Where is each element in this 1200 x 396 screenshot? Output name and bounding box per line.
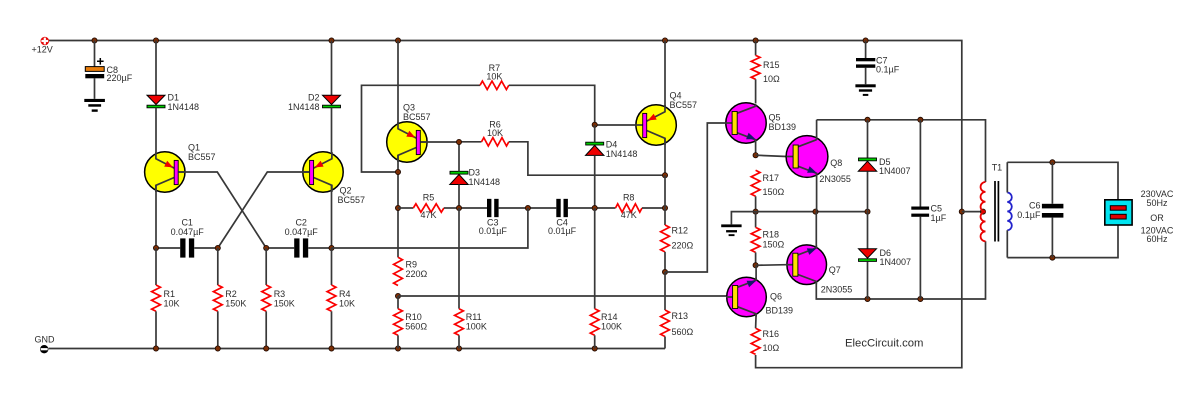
wire Q6 collector to R16: [755, 314, 758, 328]
diode D5: [858, 157, 910, 176]
junction R12/R13/Q5 base feed: [662, 269, 667, 274]
svg-text:BC557: BC557: [338, 195, 366, 205]
svg-text:Q6: Q6: [770, 292, 782, 302]
wire Q4 base to D4/R7 node: [595, 124, 636, 126]
wire R7 right to D4/Q4 base node: [509, 85, 595, 125]
wire Q2 base to C1/R2 node (cross-couple): [218, 172, 310, 248]
resistor R13: [661, 272, 694, 349]
wire Q7 emitter to ground row: [815, 212, 817, 249]
svg-text:BD139: BD139: [766, 306, 794, 316]
svg-text:BC557: BC557: [670, 100, 698, 110]
wire D2 to Q2 emitter: [331, 108, 333, 152]
node output voltage label: [1141, 189, 1174, 244]
wire Q4 collector down: [664, 138, 666, 175]
svg-text:R4: R4: [339, 289, 351, 299]
svg-text:150K: 150K: [274, 299, 295, 309]
svg-text:R10: R10: [405, 312, 422, 322]
svg-text:Q8: Q8: [830, 158, 842, 168]
svg-text:560Ω: 560Ω: [405, 322, 427, 332]
svg-text:1N4148: 1N4148: [469, 177, 501, 187]
ground (driver bias): [721, 212, 755, 236]
svg-text:1N4148: 1N4148: [288, 102, 320, 112]
transistor Q6: [726, 277, 793, 317]
wire C3-C4 node down to Q2 collector: [332, 208, 528, 248]
wire +12V rail (top, right drop to R16): [49, 41, 962, 368]
svg-text:ElecCircuit.com: ElecCircuit.com: [845, 338, 923, 350]
transformer T1: [981, 162, 1012, 257]
svg-text:2N3055: 2N3055: [821, 285, 853, 295]
diode D3: [450, 168, 500, 188]
svg-text:1µF: 1µF: [931, 213, 947, 223]
wire Q8 collector up to +rail of primary: [816, 120, 818, 137]
resistor R5: [398, 193, 459, 221]
resistor R12: [661, 175, 694, 272]
svg-text:R14: R14: [601, 312, 618, 322]
junction rail/Q3: [395, 38, 400, 43]
svg-text:10K: 10K: [339, 299, 355, 309]
transistor Q8: [786, 136, 851, 184]
wire Q5 base to R12/R13 node: [665, 123, 726, 272]
wire Q1 base to C2/R3 node (cross-couple): [178, 172, 266, 248]
resistor R8: [595, 193, 665, 221]
junction Q2 collector/C2/R4: [329, 245, 334, 250]
junction GND rail/R14: [592, 346, 597, 351]
resistor R17: [751, 170, 784, 211]
svg-text:0.1µF: 0.1µF: [876, 65, 900, 75]
wire rail to D1: [155, 41, 157, 96]
svg-text:OR: OR: [1150, 213, 1164, 223]
svg-text:BC557: BC557: [403, 112, 431, 122]
resistor R15: [751, 41, 780, 104]
wire rail to D2: [331, 41, 333, 96]
svg-text:10Ω: 10Ω: [763, 74, 780, 84]
diode D4: [586, 140, 638, 160]
junction Q3 collector/R7 feed: [395, 169, 400, 174]
svg-text:Q4: Q4: [670, 91, 682, 101]
junction Q5 emitter/R17/Q8 base: [753, 153, 758, 158]
junction +12V feed/centre tap: [959, 209, 964, 214]
svg-text:1N4148: 1N4148: [606, 149, 638, 159]
wire node to Q7 base: [756, 264, 787, 267]
junction R7/D4/Q4 base: [592, 122, 597, 127]
svg-text:150K: 150K: [225, 299, 246, 309]
junction Q4 collector/R6 feed/R12: [662, 173, 667, 178]
svg-text:0.1µF: 0.1µF: [1017, 210, 1041, 220]
junction rail/R15: [753, 38, 758, 43]
svg-text:R3: R3: [274, 289, 286, 299]
svg-text:T1: T1: [992, 163, 1003, 173]
junction C6 bottom: [1050, 255, 1055, 260]
junction R5/Q3 collector column: [395, 205, 400, 210]
junction Q7/Q8 emitters: [813, 209, 818, 214]
svg-text:R18: R18: [763, 230, 780, 240]
junction GND rail/R2: [215, 346, 220, 351]
svg-text:D4: D4: [606, 140, 618, 150]
junction R9/R10/Q6 base line: [395, 293, 400, 298]
svg-text:D3: D3: [469, 168, 481, 178]
svg-text:60Hz: 60Hz: [1146, 234, 1168, 244]
wire R9/R10 node to Q6 base: [398, 295, 727, 297]
wire Q2 collector to C2/R4 node: [331, 185, 333, 248]
capacitor C3: [459, 199, 528, 236]
wire rail to Q4 emitter: [664, 41, 666, 112]
svg-text:10K: 10K: [486, 72, 502, 82]
svg-text:R1: R1: [164, 289, 176, 299]
transistor Q1: [145, 143, 216, 193]
svg-text:C5: C5: [931, 204, 943, 214]
resistor R11: [455, 208, 487, 349]
junction Q1 collector/C1/R1: [153, 245, 158, 250]
junction GND rail/R10: [395, 346, 400, 351]
resistor R10: [394, 296, 428, 349]
AC output socket: [1105, 200, 1132, 225]
junction GND rail/R4: [329, 346, 334, 351]
wire rail to Q3 emitter: [397, 41, 399, 129]
svg-text:220Ω: 220Ω: [406, 269, 428, 279]
wire D6 cathode to bottom row: [867, 262, 869, 300]
junction C5 bottom row: [918, 296, 923, 301]
wire Q8 emitter to ground row: [816, 173, 818, 211]
node GND terminal: [35, 335, 56, 354]
wire secondary bottom to socket: [1007, 225, 1118, 257]
transistor Q5: [726, 103, 797, 143]
svg-text:0.047µF: 0.047µF: [285, 227, 319, 237]
svg-text:100K: 100K: [601, 322, 622, 332]
capacitor C2: [266, 218, 331, 258]
svg-text:Q2: Q2: [340, 186, 352, 196]
svg-text:Q7: Q7: [829, 265, 841, 275]
wire centre tap: [962, 211, 983, 213]
svg-text:R13: R13: [672, 311, 689, 321]
transistor Q4: [636, 91, 697, 146]
wire Q7 collector row to primary bottom: [816, 241, 985, 299]
junction D6 bottom row: [865, 296, 870, 301]
wire secondary top to socket: [1007, 162, 1118, 200]
capacitor C8: [85, 41, 132, 99]
wire D3 anode to R5/C3 node: [458, 185, 460, 209]
svg-text:220µF: 220µF: [107, 73, 133, 83]
junction rail/D2: [329, 38, 334, 43]
svg-text:1N4007: 1N4007: [879, 166, 911, 176]
resistor R4: [327, 248, 355, 349]
wire Q8 collector row to primary top: [817, 120, 986, 182]
svg-text:R12: R12: [672, 226, 689, 236]
resistor R16: [751, 328, 779, 354]
wire D5 anode to ground row: [867, 171, 869, 211]
svg-text:150Ω: 150Ω: [763, 187, 785, 197]
svg-text:R8: R8: [623, 193, 635, 203]
junction R18/Q6 emitter/Q7 base: [753, 263, 758, 268]
svg-text:R17: R17: [763, 173, 780, 183]
junction rail/Q4: [662, 38, 667, 43]
svg-text:R5: R5: [423, 193, 435, 203]
wire GND rail: [49, 348, 666, 350]
svg-text:47K: 47K: [621, 210, 637, 220]
wire Q1 collector to C1/R1 node: [155, 185, 157, 248]
wire node to D4 cathode: [594, 125, 596, 142]
wire R6/Q3 base node to D3 cathode: [458, 142, 460, 171]
svg-text:+12V: +12V: [32, 45, 53, 55]
svg-text:0.01µF: 0.01µF: [479, 226, 508, 236]
transistor Q2: [303, 152, 366, 205]
resistor R7: [480, 63, 509, 90]
svg-text:560Ω: 560Ω: [672, 327, 694, 337]
wire Q3 base to R6/D3 node: [420, 141, 459, 143]
wire top row to D5 cathode: [867, 120, 869, 158]
junction C2/R3/Q1 base: [264, 245, 269, 250]
svg-text:0.047µF: 0.047µF: [171, 227, 205, 237]
wire ground row to D6 anode: [867, 212, 869, 249]
node +12V terminal: [32, 37, 53, 55]
junction GND rail/R3: [264, 346, 269, 351]
wire Q3 collector down to R9: [397, 155, 399, 257]
svg-text:1N4148: 1N4148: [168, 102, 200, 112]
svg-text:47K: 47K: [420, 210, 436, 220]
wire Q6 emitter up to node: [755, 265, 757, 280]
wire node to Q8 base: [756, 155, 787, 156]
junction C4/D4/R8/R14: [592, 205, 597, 210]
transistor Q3: [387, 103, 431, 163]
svg-text:R9: R9: [406, 260, 418, 270]
svg-text:2N3055: 2N3055: [819, 174, 851, 184]
svg-text:R16: R16: [763, 329, 780, 339]
junction rail/C7: [863, 38, 868, 43]
diode D2: [288, 93, 341, 113]
svg-text:GND: GND: [35, 335, 56, 345]
capacitor C5: [911, 120, 946, 299]
svg-text:10K: 10K: [164, 299, 180, 309]
junction GND rail/R11: [456, 346, 461, 351]
svg-text:R15: R15: [763, 60, 780, 70]
transistor Q7: [786, 245, 852, 295]
svg-text:BD139: BD139: [769, 122, 797, 132]
junction C1/R2/Q2 base: [215, 245, 220, 250]
junction D5 top row: [865, 117, 870, 122]
svg-text:D1: D1: [168, 93, 180, 103]
svg-text:10Ω: 10Ω: [763, 343, 780, 353]
junction D3/R5/C3/R11: [456, 205, 461, 210]
junction GND rail/R1: [153, 346, 158, 351]
junction C5 top row: [918, 117, 923, 122]
resistor R6: [459, 120, 509, 147]
junction rail/D1: [153, 38, 158, 43]
junction D5/D6: [865, 209, 870, 214]
junction Q3 base/R6/D3: [456, 139, 461, 144]
svg-text:R11: R11: [466, 312, 482, 322]
junction C3/C4/feedback drop: [525, 205, 530, 210]
resistor R2: [213, 248, 246, 349]
svg-text:50Hz: 50Hz: [1146, 198, 1168, 208]
svg-text:Q1: Q1: [188, 143, 200, 153]
svg-text:10K: 10K: [487, 128, 503, 138]
svg-text:220Ω: 220Ω: [672, 241, 694, 251]
resistor R3: [262, 248, 295, 349]
junction R8/R12 column: [662, 205, 667, 210]
svg-text:0.01µF: 0.01µF: [548, 226, 577, 236]
svg-text:BC557: BC557: [188, 152, 216, 162]
diode D1: [147, 93, 199, 113]
svg-text:150Ω: 150Ω: [763, 240, 785, 250]
junction rail/C8: [92, 38, 97, 43]
svg-text:100K: 100K: [466, 322, 487, 332]
resistor R14: [590, 208, 622, 349]
junction C6 top: [1050, 160, 1055, 165]
wire R7 left to Q3 collector node: [362, 85, 481, 172]
wire R6 right to Q4 collector node: [509, 142, 665, 175]
resistor R18: [751, 212, 784, 266]
svg-text:Q5: Q5: [769, 113, 781, 123]
junction R17/R18/ground row: [753, 209, 758, 214]
svg-text:1N4007: 1N4007: [880, 257, 912, 267]
capacitor C6: [1017, 162, 1063, 257]
svg-text:R2: R2: [225, 289, 237, 299]
junction centre tap at primary: [980, 209, 985, 214]
wire D4 anode to C4/R8 node: [594, 155, 596, 208]
ground (C7): [855, 84, 875, 96]
wire ground row to output emitters/diodes: [756, 211, 868, 213]
svg-text:Q3: Q3: [403, 103, 415, 113]
diode D6: [859, 248, 912, 267]
capacitor C7: [856, 41, 900, 85]
wire Q5 emitter to R17/Q8 base: [755, 140, 757, 155]
svg-text:C6: C6: [1029, 201, 1041, 211]
resistor R1: [152, 248, 180, 349]
svg-text:D2: D2: [308, 93, 320, 103]
wire D1 to Q1 emitter: [155, 108, 157, 152]
capacitor C4: [528, 199, 595, 236]
ground (C8): [84, 99, 105, 112]
capacitor C1: [156, 218, 218, 258]
resistor R9: [394, 257, 428, 285]
